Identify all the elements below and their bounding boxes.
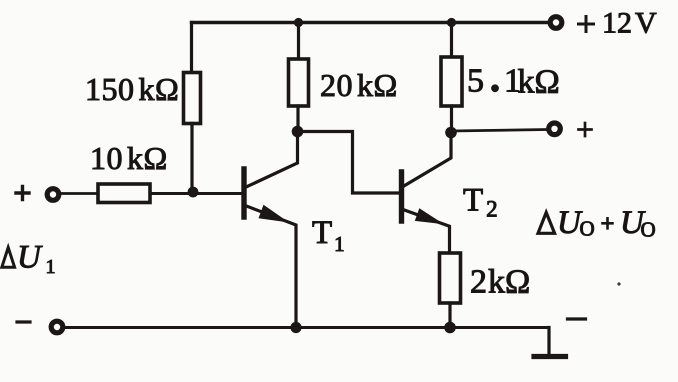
svg-text:T1: T1 — [312, 215, 345, 256]
wire: input terminal to 10k — [61, 192, 98, 195]
ground bar — [534, 354, 566, 359]
svg-text:O: O — [641, 218, 656, 242]
T1 collector lead — [245, 131, 298, 188]
svg-text:U: U — [17, 240, 43, 276]
wire: bottom rail — [65, 326, 549, 329]
svg-text:20kΩ: 20kΩ — [320, 67, 398, 103]
bottom rail minus sign — [17, 320, 30, 323]
node: top rail 20k junction — [294, 18, 303, 27]
stray dot — [617, 282, 620, 285]
output plus sign — [579, 123, 592, 136]
svg-text:T2: T2 — [463, 183, 498, 222]
output terminal upper circle — [549, 123, 561, 135]
wire: 5.1k bottom stub — [450, 106, 453, 132]
wire: T1 collector to T2 base (dog-leg) — [298, 132, 400, 194]
wire: 5.1k top stub — [450, 23, 453, 58]
label delta Uo + Uo — [538, 213, 555, 234]
wire: 10k to T1 base — [150, 192, 241, 195]
node: T1 collector junction — [292, 126, 304, 138]
label + 12V — [579, 17, 594, 32]
wire: output top to terminal — [451, 130, 547, 132]
input plus sign — [16, 187, 29, 200]
label delta U1 — [2, 248, 15, 268]
svg-text:2kΩ: 2kΩ — [470, 264, 530, 301]
node: junction of 10k/150k — [188, 187, 199, 198]
T2 collector lead — [403, 133, 451, 187]
T2 base bar — [399, 172, 404, 221]
wire: 2k bottom stub — [448, 303, 451, 328]
wire: top-left corner down to 150k top — [190, 23, 193, 74]
svg-text:kΩ: kΩ — [518, 64, 560, 101]
node: emitter junction on bottom rail — [444, 322, 456, 334]
T2 emitter arrow — [415, 208, 444, 224]
right minus sign — [568, 317, 586, 320]
resistor R 150k body — [184, 73, 201, 124]
svg-text:10kΩ: 10kΩ — [90, 140, 168, 176]
svg-text:1: 1 — [46, 256, 56, 278]
input terminal circle — [47, 189, 59, 201]
resistor R 2k body — [440, 253, 461, 303]
+12V terminal circle — [550, 17, 562, 29]
wire: top +12V rail — [192, 21, 549, 24]
node: top rail 5.1k junction — [447, 18, 456, 27]
bottom terminal circle — [51, 321, 63, 333]
svg-text:12V: 12V — [602, 7, 657, 40]
wire: 150k bottom to input junction — [190, 124, 193, 193]
resistor R 20k body — [289, 59, 309, 106]
node: T2 collector junction — [445, 127, 457, 139]
wire: 20k bottom stub — [296, 106, 299, 131]
wire: 20k top stub — [297, 23, 300, 60]
transistor T1 — [244, 131, 298, 328]
T1 base bar — [241, 169, 246, 217]
resistor R 10k body — [98, 184, 150, 203]
T1 emitter arrow — [259, 205, 290, 223]
node: T1 emitter junction on bottom rail — [290, 322, 301, 333]
ground lead — [547, 328, 550, 356]
transistor T2 — [402, 133, 452, 253]
svg-text:5: 5 — [467, 63, 484, 100]
T1 emitter lead — [245, 206, 296, 329]
svg-text:150kΩ: 150kΩ — [85, 71, 179, 107]
svg-text:O: O — [580, 217, 595, 241]
resistor R 5.1k body — [441, 57, 462, 106]
T2 emitter lead — [403, 210, 450, 254]
